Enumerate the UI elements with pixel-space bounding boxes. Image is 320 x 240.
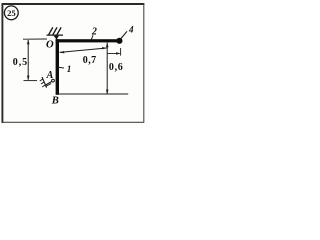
svg-text:0,5: 0,5 [13, 57, 28, 68]
svg-text:2: 2 [91, 27, 97, 38]
svg-text:25: 25 [7, 8, 16, 18]
svg-text:O: O [46, 40, 54, 51]
svg-text:B: B [51, 96, 59, 107]
svg-text:4: 4 [128, 24, 134, 34]
svg-text:0,6: 0,6 [109, 62, 124, 73]
svg-text:1: 1 [67, 64, 72, 74]
svg-text:0,7: 0,7 [83, 55, 97, 66]
